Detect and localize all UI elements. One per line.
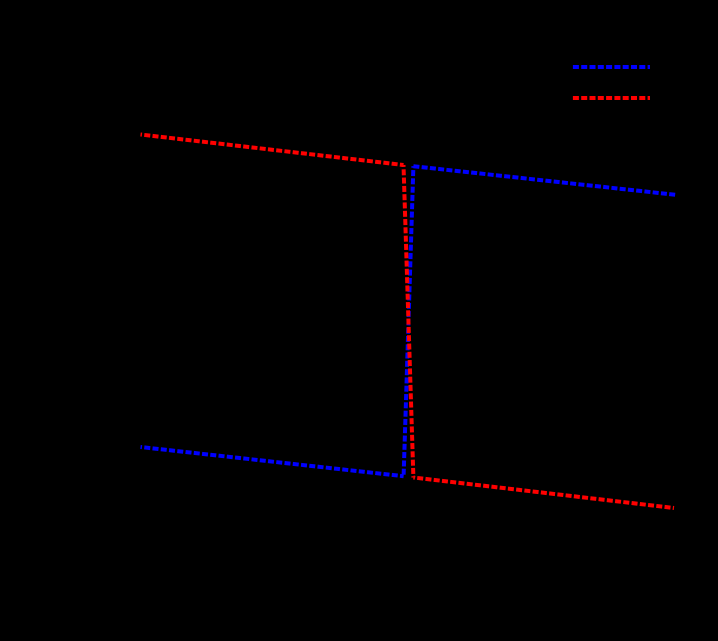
red curve upper-left segment [141,135,404,166]
blue curve steep rising segment [404,166,414,476]
blue curve lower-left segment [141,447,404,476]
red curve steep falling segment [404,165,414,478]
legend blue dash sample [573,65,650,69]
legend red dash sample [573,96,650,100]
red curve lower-right segment [413,478,674,509]
blue curve upper-right segment [413,166,675,195]
